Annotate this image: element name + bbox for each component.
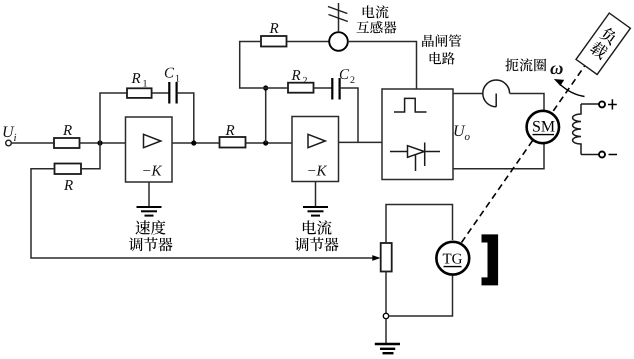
svg-text:R: R (63, 178, 73, 194)
wire choke to SM (510, 94, 544, 112)
svg-text:o: o (465, 131, 471, 143)
choke loop (483, 80, 510, 107)
node A junction dot (97, 140, 102, 145)
wire R2 to C2 (314, 87, 333, 89)
arrowhead into potentiometer (372, 255, 380, 261)
thyristor circuit box (382, 89, 453, 180)
wire input to R (11, 142, 54, 144)
tachogenerator TG (436, 242, 469, 275)
svg-text:C: C (164, 66, 175, 82)
wire R left down to node D (240, 42, 266, 89)
wire lower R left, down to feedback bus (31, 169, 379, 258)
node Ui input label (2, 124, 17, 144)
terminal small circle (383, 313, 388, 318)
op-amp U1 triangle (144, 134, 161, 147)
wire node A up to R1 (100, 93, 127, 143)
svg-text:R: R (62, 123, 72, 139)
svg-text:R: R (291, 68, 301, 84)
node B junction dot (191, 140, 196, 145)
ground (U2) (303, 207, 328, 216)
label + (608, 104, 617, 106)
svg-text:1: 1 (143, 79, 148, 90)
svg-text:K: K (151, 164, 163, 180)
wire R1 to C1 (152, 92, 169, 94)
pulse symbol (394, 98, 427, 112)
capacitor C2 (332, 67, 355, 100)
+ terminal (599, 101, 605, 107)
capacitor C1 (164, 66, 180, 104)
wire pot bottom to terminal (385, 272, 387, 314)
resistor R (lower input, speed feedback) (55, 164, 82, 195)
svg-text:R: R (269, 21, 279, 37)
wire pot top to TG top (386, 205, 453, 244)
CT slash marks (328, 7, 348, 22)
field winding inductor (573, 104, 581, 155)
label Uo (453, 123, 471, 143)
label - (609, 154, 618, 156)
node D junction dot (263, 85, 268, 90)
wire to - terminal (581, 154, 599, 156)
resistor R2 (288, 68, 314, 93)
wire R to node A (80, 142, 127, 144)
svg-text:2: 2 (303, 76, 308, 87)
svg-text:1: 1 (175, 74, 180, 85)
wire terminal down to ground (385, 319, 387, 344)
resistor R (inter-stage) (220, 123, 246, 148)
svg-text:−: − (143, 164, 151, 180)
op-amp U2 current regulator box (292, 117, 339, 182)
label load (589, 25, 620, 60)
wire node D to R2 (266, 87, 288, 89)
resistor R1 (127, 71, 152, 98)
wire R to U2 input (246, 142, 293, 144)
wire bottom output to SM (453, 144, 544, 169)
thyristor symbol (390, 143, 440, 172)
rotation arrow omega (554, 79, 585, 97)
op-amp U2 triangle (308, 134, 325, 147)
label choke (505, 58, 546, 71)
- terminal (599, 152, 605, 158)
label speed regulator (129, 220, 173, 251)
wire U2 output to thyristor box (339, 141, 383, 143)
wire C1 down to node B (177, 93, 194, 143)
node C junction dot (263, 140, 268, 145)
svg-text:TG: TG (443, 252, 463, 268)
svg-text:R: R (225, 123, 235, 139)
motor SM (527, 111, 559, 143)
wire U1 output to node B (172, 142, 220, 144)
resistor R (current feedback) (261, 21, 287, 47)
svg-text:K: K (316, 164, 328, 180)
wire CT to thyristor box (348, 42, 417, 90)
wire to + terminal (581, 103, 599, 105)
svg-text:2: 2 (350, 75, 355, 86)
resistor R (input, top) (54, 123, 80, 148)
svg-text:SM: SM (532, 119, 555, 136)
label current transformer (357, 5, 397, 33)
input terminal (6, 140, 12, 146)
load box (576, 13, 630, 74)
wire U2 ground stem (315, 182, 317, 208)
op-amp U1 speed regulator box (126, 117, 173, 182)
svg-text:R: R (131, 71, 141, 87)
ground (U1) (137, 207, 162, 216)
op-amp U2 gain label -K (308, 164, 328, 180)
wire U1 ground stem (148, 182, 150, 207)
svg-text:ω: ω (550, 59, 563, 79)
mechanical mount bracket (482, 234, 499, 285)
ground (main) (375, 344, 400, 353)
wire terminal to TG bottom (389, 274, 453, 316)
svg-text:C: C (339, 67, 350, 83)
potentiometer (381, 243, 392, 272)
wire node C riser (265, 88, 267, 143)
svg-text:i: i (14, 132, 17, 144)
wire lower R right to node A (81, 143, 100, 169)
shaft dashed line TG-SM-load (462, 64, 587, 243)
op-amp U1 gain label -K (143, 164, 163, 180)
label current regulator (295, 220, 339, 251)
CT primary line up (338, 3, 340, 32)
wire C2 down to U2 output line (340, 88, 358, 142)
svg-text:−: − (308, 164, 316, 180)
label thyristor circuit (422, 34, 461, 64)
wire CT branch down to node D (287, 41, 330, 43)
current transformer CT circle (329, 32, 348, 51)
wire top output to choke (453, 93, 483, 95)
